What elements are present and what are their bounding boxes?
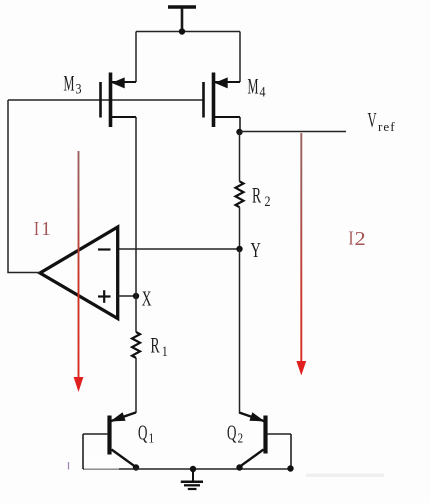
- resistor R2: [236, 181, 244, 207]
- wire op-amp output feedback: [8, 100, 40, 273]
- wire node to R2: [239, 132, 241, 181]
- label I2: [349, 226, 366, 249]
- svg-text:X: X: [142, 286, 152, 310]
- wire op-amp plus input to X: [118, 295, 136, 297]
- svg-text:V: V: [368, 109, 377, 132]
- svg-text:I: I: [34, 217, 39, 240]
- node Q1 collector: [133, 464, 139, 470]
- wire op-amp minus input to Y: [118, 248, 240, 250]
- svg-text:Y: Y: [251, 238, 261, 261]
- svg-text:ref: ref: [378, 119, 396, 134]
- wire gate net (op-amp output to M3/M4 gates): [8, 99, 203, 101]
- node junction VDD rail: [179, 28, 185, 34]
- wire R2 to node Y: [239, 207, 241, 249]
- purple scan tick: [68, 462, 70, 470]
- label R1: [151, 333, 168, 359]
- transistor M4: [204, 73, 241, 133]
- wire M3 source drop: [135, 32, 137, 83]
- svg-text:R: R: [151, 333, 161, 357]
- power supply VDD symbol: [168, 7, 196, 32]
- transistor Q1: [83, 412, 136, 469]
- label M4: [248, 74, 266, 100]
- node ground junction: [190, 466, 196, 472]
- svg-text:Q: Q: [138, 420, 148, 444]
- svg-text:4: 4: [260, 83, 266, 100]
- svg-text:2: 2: [238, 430, 244, 445]
- svg-text:I: I: [349, 226, 354, 249]
- current arrow I2: [296, 133, 306, 376]
- svg-text:1: 1: [149, 430, 155, 445]
- resistor R1: [132, 332, 140, 358]
- wire R1 to Q1 emitter: [135, 358, 137, 413]
- transistor Q2: [239, 412, 291, 469]
- wire Y to Q2 emitter: [239, 249, 241, 413]
- ground: [181, 469, 203, 489]
- white patch artifact over rail: [84, 456, 119, 469]
- node Q2 base corner: [287, 465, 293, 471]
- wire M3 drain branch (through X): [135, 117, 137, 332]
- svg-text:2: 2: [265, 193, 271, 210]
- label Vref: [368, 109, 396, 134]
- faint scan streak: [306, 474, 384, 478]
- label I1: [34, 217, 51, 240]
- op-amp U1: [40, 227, 118, 319]
- node Q2 collector: [236, 464, 242, 470]
- label R2: [252, 183, 271, 209]
- wire VDD rail: [136, 31, 240, 33]
- svg-text:1: 1: [162, 343, 168, 360]
- node X: [133, 293, 139, 299]
- svg-text:M: M: [64, 71, 75, 96]
- svg-text:1: 1: [41, 219, 50, 241]
- label Q2: [227, 420, 243, 446]
- wire to Vref: [240, 131, 347, 133]
- svg-text:2: 2: [355, 227, 366, 250]
- svg-text:Q: Q: [227, 420, 237, 444]
- node junction Vref: [236, 129, 242, 135]
- svg-text:M: M: [248, 74, 259, 99]
- node Y: [236, 246, 242, 252]
- svg-text:R: R: [252, 183, 262, 207]
- current arrow I1: [74, 151, 84, 392]
- label Q1: [138, 420, 154, 446]
- label M3: [64, 71, 82, 97]
- svg-text:3: 3: [76, 80, 82, 97]
- wire ground rail: [83, 468, 291, 470]
- transistor M3: [101, 73, 137, 128]
- wire M4 source drop: [239, 32, 241, 83]
